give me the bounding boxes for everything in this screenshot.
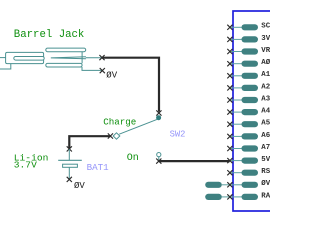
battery BAT1 negative stub [68, 167, 70, 179]
external connector pin at RAW row [205, 194, 229, 200]
svg-text:On: On [127, 153, 139, 164]
battery BAT1 negative plate [63, 164, 78, 167]
svg-text:SCK: SCK [261, 23, 270, 31]
barrel jack J1 sleeve pin stub [82, 67, 102, 70]
U1 pin A7 [227, 144, 270, 152]
junction X: battery -, net 0V [67, 177, 72, 182]
U1 pin A2 [227, 83, 270, 91]
external connector pin at 0V row [205, 182, 229, 188]
svg-text:RA: RA [261, 192, 270, 200]
switch SW2 lever [119, 119, 157, 134]
U1 pin VREF [227, 47, 270, 55]
svg-text:3.7V: 3.7V [14, 160, 37, 171]
U1 pin 0V [227, 179, 270, 188]
U1 pin 3V3 [227, 35, 275, 43]
U1 pin RAW [227, 192, 270, 200]
junction X: switch common pin [156, 110, 161, 115]
svg-text:ØV: ØV [261, 179, 270, 188]
U1 pin A5 [227, 120, 270, 128]
svg-text:VR: VR [261, 47, 270, 55]
U1 pin A3 [227, 95, 270, 103]
barrel jack J1 center-pin fork (right) [46, 48, 86, 67]
wire: barrel jack tip to switch common [102, 58, 159, 112]
barrel jack J1 shunt step stub [0, 64, 11, 69]
IC U1 body outline [233, 11, 278, 211]
svg-text:A5: A5 [261, 120, 270, 128]
battery BAT1 positive plate [58, 159, 82, 161]
switch SW2 throw 2 circle (On) [157, 153, 161, 157]
junction X: throw 2 [156, 159, 161, 164]
switch SW2 common pole dot [156, 115, 161, 120]
battery BAT1 positive stub [68, 149, 70, 160]
svg-text:A1: A1 [261, 71, 270, 79]
svg-text:A3: A3 [261, 95, 270, 103]
U1 pin A0 [227, 58, 270, 67]
wire: switch throw 2 to U1 5V pin [159, 160, 230, 162]
svg-text:BAT1: BAT1 [87, 162, 110, 173]
U1 pin SCK [227, 23, 275, 31]
U1 pin A6 [227, 132, 270, 140]
junction X: jack tip [99, 55, 104, 60]
svg-text:AØ: AØ [261, 58, 270, 67]
svg-text:ØV: ØV [74, 181, 85, 191]
junction X: jack sleeve, net 0V [100, 68, 105, 73]
junction X: battery + [67, 146, 72, 151]
U1 pin A4 [227, 108, 270, 116]
svg-text:SW2: SW2 [170, 129, 186, 139]
U1 pin 5V [227, 156, 270, 164]
barrel jack J1 tip pin stub [86, 57, 102, 59]
junction X: throw 1 [108, 133, 113, 138]
svg-text:RS: RS [261, 168, 270, 176]
svg-text:A7: A7 [261, 144, 270, 152]
svg-text:3V3: 3V3 [261, 35, 270, 43]
svg-text:ØV: ØV [106, 71, 117, 81]
svg-text:Barrel Jack: Barrel Jack [14, 29, 85, 41]
switch SW2 throw 1 diamond (Charge) [113, 133, 120, 139]
barrel jack J1 sleeve left stub wire [0, 57, 6, 59]
svg-text:Charge: Charge [103, 117, 136, 128]
svg-text:A2: A2 [261, 83, 270, 91]
U1 pin RST [227, 168, 270, 176]
svg-text:5V: 5V [261, 156, 270, 164]
svg-text:A4: A4 [261, 108, 270, 116]
wire: switch throw 1 to battery + [69, 136, 110, 148]
svg-text:A6: A6 [261, 132, 270, 140]
barrel jack J1 sleeve fork (left) [6, 52, 45, 63]
U1 pin A1 [227, 71, 270, 79]
